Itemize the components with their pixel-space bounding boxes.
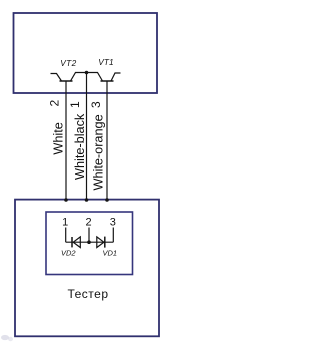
inner connector box [46,212,133,275]
svg-text:White: White [52,122,66,154]
svg-text:1: 1 [62,217,68,229]
top module box [14,13,158,93]
transistor VT2 [51,73,87,82]
node junction dot (collector tie) [85,71,89,75]
svg-text:White-black: White-black [73,113,87,180]
node dot wire3 to box [105,198,109,202]
transistor VT1 [87,73,121,82]
pin 3 lead [112,228,114,243]
pin 1 lead [65,228,67,243]
bottom tester box [15,200,159,337]
wire 1 (middle, from junction) [86,73,88,201]
node dot pin 2 junction [87,240,91,244]
node dot wire1 to box [85,198,89,202]
svg-text:VT1: VT1 [98,57,114,67]
svg-text:Тестер: Тестер [67,287,108,301]
svg-text:White-orange: White-orange [91,114,105,190]
svg-text:1: 1 [68,101,82,108]
diode VD1 (points right, cathode bar right) [97,237,105,248]
pin 2 lead [88,228,90,243]
svg-text:VD2: VD2 [61,249,76,258]
svg-text:2: 2 [48,100,62,107]
diode net wire [66,241,114,243]
svg-text:VT2: VT2 [60,58,76,68]
diode VD2 (cathode bar left, points left) [72,237,80,248]
svg-text:2: 2 [86,217,92,229]
node dot wire2 to box [64,198,68,202]
wire 3 (right, from VT1 base bar) [106,81,108,200]
faint artifact mark bottom-left [1,335,13,341]
svg-text:VD1: VD1 [103,249,118,258]
svg-text:3: 3 [89,101,103,108]
wire 2 (left, from VT2 base bar) [65,81,67,200]
svg-text:3: 3 [110,217,116,229]
